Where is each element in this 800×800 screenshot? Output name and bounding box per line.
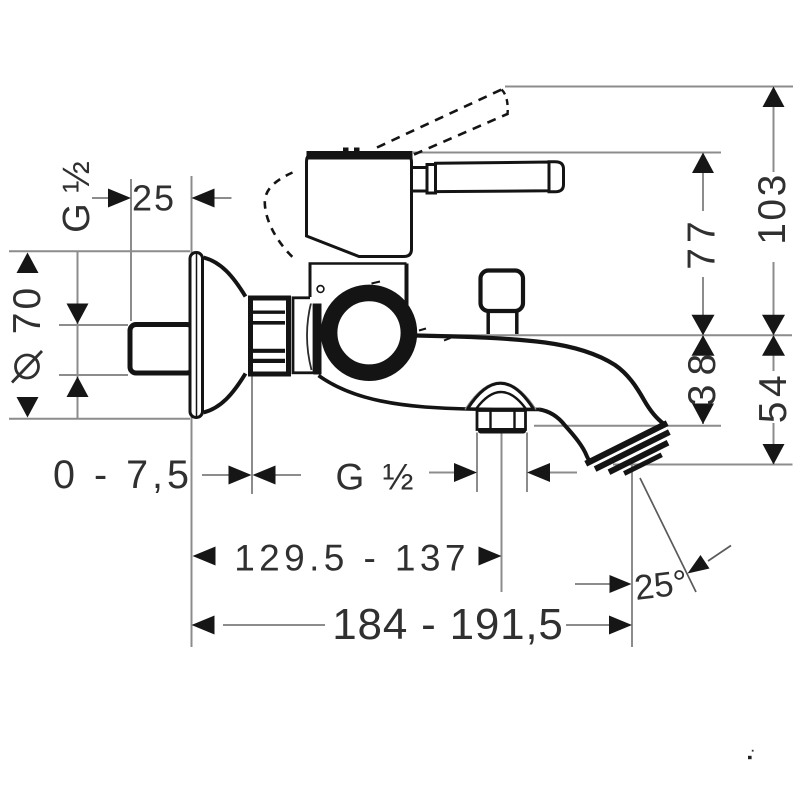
aerator slanted bands xyxy=(584,420,679,489)
handle top nubs xyxy=(343,148,349,153)
wall plate of escutcheon xyxy=(190,253,203,418)
bowtie 103/54 xyxy=(762,315,785,336)
handle head top band xyxy=(307,151,413,160)
svg-text:0 - 7,5: 0 - 7,5 xyxy=(53,453,193,497)
25 degree slant line xyxy=(640,478,696,592)
dim 0-7,5 line xyxy=(202,474,301,476)
knurled union nut xyxy=(251,298,289,374)
shower outlet dome outer xyxy=(465,382,536,409)
cartridge collar xyxy=(310,264,407,304)
arrow 129.5 left xyxy=(193,547,216,566)
dim line lever top 77 reference xyxy=(413,152,721,154)
arrow G1/2 right xyxy=(527,463,550,482)
diverter stem xyxy=(488,313,517,335)
lever end cap xyxy=(549,162,564,192)
25 degree left leader xyxy=(575,583,610,585)
bowtie 77/38 xyxy=(692,315,715,336)
svg-text:25°: 25° xyxy=(632,563,689,608)
lever bar xyxy=(436,162,550,192)
dim 25 tails xyxy=(92,197,232,199)
handle head xyxy=(307,155,412,257)
arrow flange bottom xyxy=(17,397,39,418)
bowtie 0-7,5 xyxy=(229,466,252,485)
bell front arc xyxy=(307,301,312,370)
svg-text:70: 70 xyxy=(6,285,49,334)
dim vertical flange front xyxy=(251,374,253,494)
escutcheon bell bottom edge xyxy=(204,374,246,413)
spout top contour xyxy=(416,336,664,425)
arrow nipple bottom xyxy=(67,377,89,398)
dim line flange bottom xyxy=(9,418,190,420)
lever collar xyxy=(427,165,436,194)
svg-text:38: 38 xyxy=(681,345,724,406)
dim vertical 103/54 column xyxy=(773,95,775,465)
arrow G1/2 left xyxy=(454,463,477,482)
spout underside curve xyxy=(319,376,540,410)
tick on circle top xyxy=(372,282,381,284)
svg-text:77: 77 xyxy=(681,216,724,269)
arrow 25deg at vertical xyxy=(610,575,632,593)
dim vertical wall line xyxy=(191,176,193,647)
dim line top 103 reference xyxy=(505,86,793,88)
dim line nipple top xyxy=(59,324,128,326)
dim line flange top xyxy=(9,250,190,252)
dim vertical nipple OD column xyxy=(77,251,79,419)
dim line mid spout reference xyxy=(419,334,792,336)
shower outlet nut xyxy=(477,411,526,430)
label dia 70 rotated xyxy=(16,355,39,378)
watermark dots xyxy=(752,750,754,752)
lever neck xyxy=(412,168,428,192)
shower outlet nut bottom band xyxy=(478,428,526,434)
svg-text:184 - 191,5: 184 - 191,5 xyxy=(332,600,563,649)
arrow 38 bottom xyxy=(692,404,714,425)
body circle xyxy=(329,293,409,373)
arrow flange top xyxy=(17,253,39,274)
dim line 38 bottom reference xyxy=(534,425,721,427)
arrow 184 right xyxy=(609,616,632,635)
union body xyxy=(293,298,314,373)
svg-text:129.5 - 137: 129.5 - 137 xyxy=(234,538,470,579)
arrow 103 top xyxy=(763,87,785,108)
arrow nipple top xyxy=(67,304,89,325)
dim vertical 77/38 column xyxy=(702,156,704,424)
escutcheon bell top edge xyxy=(204,258,246,297)
arrow 184 left xyxy=(192,616,215,635)
handle raised dashed end cap xyxy=(502,90,508,115)
small screw circle xyxy=(317,286,324,293)
handle raised dashed upper line xyxy=(377,90,502,148)
shower outlet dome inner xyxy=(476,392,526,409)
arrow 25 right xyxy=(192,189,215,208)
dim line nipple bottom xyxy=(59,374,128,376)
25 degree right leader xyxy=(708,546,731,562)
wall nipple G1/2 xyxy=(130,325,193,374)
dim line 54 bottom reference xyxy=(613,464,793,466)
diverter knob xyxy=(481,271,524,312)
svg-text:25: 25 xyxy=(132,178,176,219)
svg-text:G ½: G ½ xyxy=(336,457,418,498)
dim vertical left of nipple xyxy=(130,179,132,321)
arrow 25 left xyxy=(108,189,131,208)
dim vertical spout tip xyxy=(631,465,633,648)
svg-text:54: 54 xyxy=(752,371,795,423)
arrow 54 bottom xyxy=(763,444,785,465)
svg-text:103: 103 xyxy=(751,172,794,245)
ticks right of circle xyxy=(419,329,451,341)
spout tip underside xyxy=(539,409,589,460)
dim G1/2 extension lines xyxy=(477,433,527,493)
dim 184 line xyxy=(223,624,609,626)
handle raised dashed lower line xyxy=(414,114,509,155)
dim G1/2 bottom lines xyxy=(429,472,577,474)
arrow 129.5 right xyxy=(479,547,502,566)
arrow 77 top xyxy=(692,153,714,174)
arrow 25deg at slant xyxy=(688,555,710,574)
svg-text:G ½: G ½ xyxy=(56,161,98,233)
outlet centre line xyxy=(501,433,503,592)
union right collar bar xyxy=(314,297,322,375)
handle raised dashed arc xyxy=(265,173,293,258)
